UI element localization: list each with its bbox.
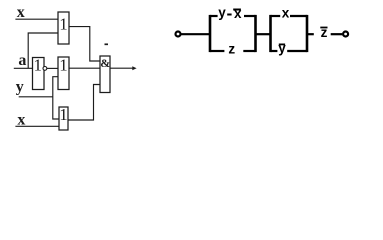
svg-text:1: 1 bbox=[33, 56, 42, 75]
wire B2 output to AND gate middle input bbox=[69, 67, 100, 69]
wire a to inverter B1 bbox=[14, 67, 33, 69]
wire a branch riser to G1 second input bbox=[28, 33, 58, 68]
wire between groups bbox=[256, 33, 271, 35]
left terminal bbox=[176, 32, 181, 37]
bracket group 2 left bbox=[269, 15, 272, 52]
series dash bbox=[227, 14, 231, 16]
contact z-bar bbox=[320, 25, 327, 40]
svg-text:1: 1 bbox=[59, 15, 68, 34]
svg-text:x: x bbox=[282, 5, 290, 20]
wire y to B2 lower input and down to G4 bbox=[19, 77, 59, 119]
svg-text:&: & bbox=[100, 56, 110, 70]
contact z (bottom branch) bbox=[210, 42, 256, 57]
OR gate G4 (bottom, IEC box "1") bbox=[59, 105, 68, 130]
inverter B1 (IEC box "1") bbox=[33, 56, 45, 90]
contact y (top branch) bbox=[210, 5, 226, 20]
wire group 2 to contact z-bar bbox=[307, 33, 314, 35]
svg-text:a: a bbox=[18, 52, 26, 69]
right terminal bbox=[343, 32, 348, 37]
wire x to gate G4 bbox=[15, 125, 59, 127]
svg-text:y: y bbox=[16, 79, 24, 96]
contact y-bar (group 2 bottom branch) bbox=[271, 41, 308, 56]
svg-text:1: 1 bbox=[59, 105, 68, 124]
svg-text:y: y bbox=[278, 41, 286, 56]
bracket group 1 left bbox=[209, 15, 212, 52]
negation dash above AND gate bbox=[105, 43, 109, 45]
AND gate U1 (IEC box "&") bbox=[100, 56, 110, 93]
bracket group 2 right bbox=[306, 15, 309, 52]
wire G1 output to AND gate top input bbox=[69, 27, 100, 61]
output arrow bbox=[110, 66, 137, 70]
wire G4 output to AND gate bottom input bbox=[68, 85, 100, 121]
OR gate B2 (middle, IEC box "1") bbox=[58, 56, 69, 90]
bracket group 1 right bbox=[254, 15, 257, 52]
wire bubble to gate B2 bbox=[47, 67, 58, 69]
OR gate G1 (top, IEC box "1") bbox=[58, 12, 69, 44]
svg-text:y: y bbox=[218, 5, 226, 20]
inversion bubble at B1 output bbox=[43, 67, 47, 71]
svg-text:z: z bbox=[228, 42, 235, 57]
wire x to gate G1 bbox=[15, 18, 58, 20]
contact x-bar bbox=[233, 6, 255, 21]
wire terminal to group 1 bbox=[181, 33, 210, 35]
contact x (group 2 top branch) bbox=[271, 5, 308, 20]
svg-text:x: x bbox=[234, 6, 242, 21]
wire z-bar to right terminal bbox=[331, 33, 343, 35]
svg-text:1: 1 bbox=[59, 56, 68, 75]
